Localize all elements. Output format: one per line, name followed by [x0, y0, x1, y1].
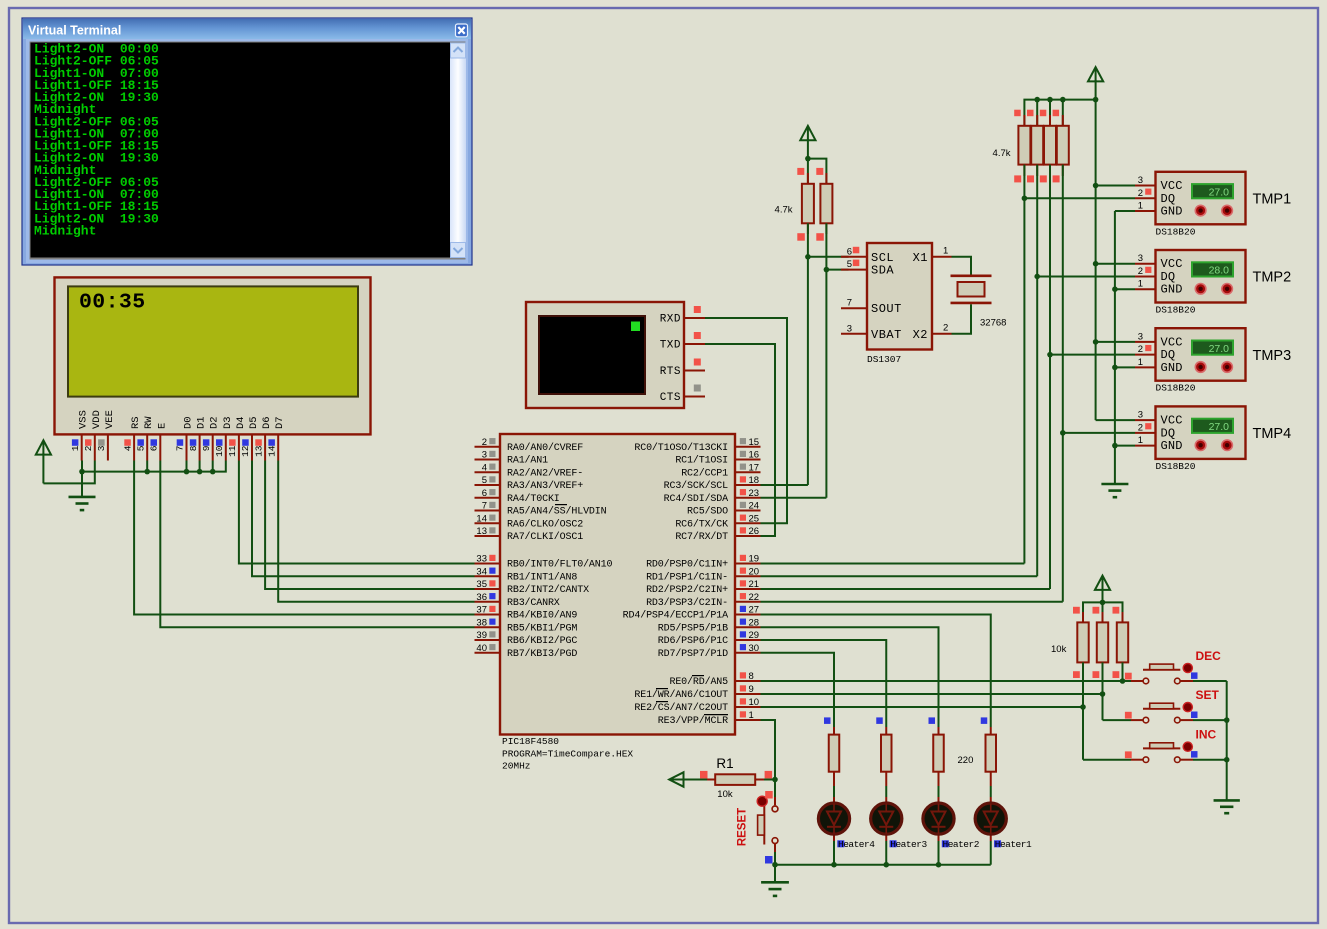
svg-text:Heater3: Heater3: [890, 839, 927, 850]
wire RE2 to INC: [761, 706, 1084, 708]
LCD pin 11 D4: [227, 416, 247, 460]
svg-text:37: 37: [476, 605, 487, 616]
svg-text:RD4/PSP4/ECCP1/P1A: RD4/PSP4/ECCP1/P1A: [623, 610, 728, 622]
PIC pin 19 RD0/PSP0/C1IN+: [646, 554, 760, 571]
svg-text:RD7/PSP7/P1D: RD7/PSP7/P1D: [658, 648, 728, 660]
resistor 4.7k DQ pullup 1: [1014, 110, 1030, 183]
svg-text:VEE: VEE: [104, 410, 116, 429]
svg-text:40: 40: [476, 643, 487, 654]
svg-text:RC5/SDO: RC5/SDO: [687, 506, 728, 518]
PIC pin 4 RA2/AN2/VREF-: [475, 462, 584, 479]
wire crystal to X2: [952, 304, 972, 334]
push button RESET: [757, 780, 778, 864]
svg-text:20: 20: [749, 566, 760, 577]
DS18B20 temperature sensor TMP4: [1135, 406, 1246, 459]
svg-text:9: 9: [201, 445, 212, 451]
LCD pin 5 RW: [135, 416, 155, 461]
svg-text:14: 14: [476, 513, 487, 524]
PIC pin 30 RD7/PSP7/P1D: [658, 643, 761, 660]
svg-text:14: 14: [266, 445, 277, 457]
svg-text:9: 9: [749, 684, 754, 695]
svg-text:RA6/CLKO/OSC2: RA6/CLKO/OSC2: [507, 518, 583, 530]
svg-text:27: 27: [749, 605, 760, 616]
LCD pin 14 D7: [266, 416, 286, 460]
wire LCD D7 to PIC RB3: [278, 461, 474, 602]
svg-text:4.7k: 4.7k: [993, 148, 1011, 159]
svg-text:SET: SET: [1196, 688, 1220, 702]
PIC pin 17 RC2/CCP1: [681, 462, 760, 479]
wire terminal RXD to PIC RC6: [705, 318, 787, 523]
svg-text:RC6/TX/CK: RC6/TX/CK: [675, 518, 728, 530]
wire terminal TXD to PIC RC7: [705, 344, 775, 536]
wire DQ2 net: [1036, 165, 1038, 577]
svg-text:VDD: VDD: [91, 410, 103, 429]
svg-text:Midnight: Midnight: [34, 223, 96, 238]
svg-text:RXD: RXD: [660, 314, 681, 326]
svg-text:RB5/KBI1/PGM: RB5/KBI1/PGM: [507, 622, 577, 634]
svg-text:TXD: TXD: [660, 340, 681, 352]
resistor 220 heater Heater1: [981, 717, 996, 771]
svg-text:2: 2: [1138, 188, 1143, 199]
terminal pin CTS: [660, 385, 705, 405]
wire PIC RD4 to heater1: [761, 615, 991, 728]
svg-text:26: 26: [749, 526, 760, 537]
svg-text:27.0: 27.0: [1209, 186, 1230, 198]
PIC pin 3 RA1/AN1: [475, 450, 549, 467]
wire VCC bus to 10k resistors: [1083, 602, 1123, 612]
wire buttons to ground: [1226, 681, 1228, 800]
PIC18F4580 microcontroller body: [500, 434, 735, 735]
LCD pin 9 D2: [201, 416, 221, 460]
svg-text:VSS: VSS: [78, 410, 90, 429]
svg-text:4: 4: [482, 462, 487, 473]
svg-text:RE1/WR/AN6/C1OUT: RE1/WR/AN6/C1OUT: [634, 689, 728, 701]
LCD pin 10 D3: [214, 416, 234, 460]
svg-text:RA5/AN4/SS/HLVDIN: RA5/AN4/SS/HLVDIN: [507, 506, 607, 518]
label Heater1: [994, 839, 1032, 850]
wire LCD ground bus: [81, 461, 83, 472]
wire DQ1 net: [1023, 165, 1025, 564]
svg-text:PROGRAM=TimeCompare.HEX: PROGRAM=TimeCompare.HEX: [502, 748, 633, 759]
wire SDA net: [825, 223, 827, 497]
PIC pin 37 RB4/KBI0/AN9: [475, 605, 578, 622]
svg-text:D0: D0: [183, 416, 195, 429]
svg-text:Virtual Terminal: Virtual Terminal: [28, 24, 121, 38]
svg-text:RE3/VPP/MCLR: RE3/VPP/MCLR: [658, 715, 728, 727]
svg-text:DS18B20: DS18B20: [1156, 383, 1196, 394]
PIC pin 29 RD6/PSP6/P1C: [658, 630, 761, 647]
svg-text:DEC: DEC: [1196, 649, 1222, 663]
svg-text:220: 220: [958, 755, 974, 766]
wire VCC rail to sensors: [1095, 100, 1097, 421]
svg-text:12: 12: [240, 445, 251, 457]
resistor 220 heater Heater3: [876, 717, 891, 771]
svg-text:E: E: [156, 423, 168, 429]
resistor 4.7k DQ pullup 2: [1027, 110, 1043, 183]
DS1307 pin 1 X1: [913, 245, 952, 264]
svg-text:28: 28: [749, 617, 760, 628]
svg-text:RC0/T1OSO/T13CKI: RC0/T1OSO/T13CKI: [634, 442, 728, 454]
svg-text:RD6/PSP6/P1C: RD6/PSP6/P1C: [658, 635, 728, 647]
PIC pin 15 RC0/T1OSO/T13CKI: [634, 437, 760, 454]
PIC pin 40 RB7/KBI3/PGD: [475, 643, 578, 660]
PIC pin 18 RC3/SCK/SCL: [664, 475, 761, 492]
push button INC: [1125, 742, 1227, 762]
LED Heater1: [975, 772, 1006, 841]
svg-text:5: 5: [482, 475, 487, 486]
push button SET: [1125, 703, 1227, 723]
LCD pin 4 RS: [122, 416, 142, 460]
svg-text:8: 8: [749, 671, 754, 682]
svg-text:RA7/CLKI/OSC1: RA7/CLKI/OSC1: [507, 531, 583, 543]
svg-text:RB3/CANRX: RB3/CANRX: [507, 597, 560, 609]
svg-text:RA3/AN3/VREF+: RA3/AN3/VREF+: [507, 480, 583, 492]
svg-text:D7: D7: [274, 416, 286, 429]
svg-text:4: 4: [122, 445, 133, 451]
svg-text:DS18B20: DS18B20: [1156, 305, 1196, 316]
wire GND rail of sensors: [1114, 211, 1116, 484]
svg-text:32768: 32768: [980, 318, 1006, 329]
svg-text:Heater1: Heater1: [995, 839, 1032, 850]
wire SCL net: [807, 223, 809, 485]
svg-text:D3: D3: [222, 416, 234, 429]
svg-text:3: 3: [1138, 410, 1143, 421]
svg-text:25: 25: [749, 513, 760, 524]
svg-text:2: 2: [83, 445, 94, 451]
LED Heater2: [923, 772, 954, 841]
svg-text:RB4/KBI0/AN9: RB4/KBI0/AN9: [507, 610, 577, 622]
svg-text:7: 7: [482, 501, 487, 512]
LCD screen: [68, 286, 358, 396]
PIC pin 35 RB2/INT2/CANTX: [475, 579, 590, 596]
svg-text:GND: GND: [1161, 283, 1183, 297]
svg-text:30: 30: [749, 643, 760, 654]
wire LCD RS to PIC RB4: [134, 461, 474, 615]
svg-text:8: 8: [188, 445, 199, 451]
PIC pin 14 RA6/CLKO/OSC2: [475, 513, 584, 530]
svg-text:28.0: 28.0: [1209, 265, 1230, 277]
svg-text:Heater2: Heater2: [943, 839, 980, 850]
terminal pin TXD: [660, 332, 705, 352]
ground symbol below RESET: [761, 881, 789, 884]
LCD pin 13 D6: [253, 416, 273, 460]
svg-text:13: 13: [253, 445, 264, 457]
virtual terminal instrument screen: [539, 316, 645, 394]
LCD pin 12 D5: [240, 416, 260, 460]
svg-text:RE2/CS/AN7/C2OUT: RE2/CS/AN7/C2OUT: [634, 702, 728, 714]
svg-text:3: 3: [847, 323, 852, 334]
svg-text:10: 10: [749, 697, 760, 708]
PIC overline marks: [555, 505, 728, 715]
svg-text:18: 18: [749, 475, 760, 486]
svg-text:21: 21: [749, 579, 760, 590]
svg-text:RB7/KBI3/PGD: RB7/KBI3/PGD: [507, 648, 577, 660]
svg-text:INC: INC: [1196, 728, 1217, 742]
svg-text:2: 2: [482, 437, 487, 448]
virtual terminal close button: [456, 24, 468, 37]
svg-text:10: 10: [214, 445, 225, 457]
svg-text:3: 3: [1138, 175, 1143, 186]
svg-text:1: 1: [1138, 435, 1143, 446]
PIC pin 34 RB1/INT1/AN8: [475, 566, 578, 583]
svg-text:RB6/KBI2/PGC: RB6/KBI2/PGC: [507, 635, 577, 647]
DS18B20 temperature sensor TMP3: [1135, 328, 1246, 381]
virtual terminal title bar: [23, 19, 471, 39]
svg-text:X2: X2: [913, 328, 928, 342]
wire VCC bus to pullups: [1024, 100, 1095, 126]
svg-text:CTS: CTS: [660, 392, 681, 404]
resistor 4.7k DQ pullup 4: [1053, 110, 1069, 183]
wire RESET to ground bus: [774, 852, 776, 865]
wire PIC RD6 to heater3: [761, 640, 887, 727]
PIC pin 16 RC1/T1OSI: [675, 450, 760, 467]
terminal cursor block: [631, 322, 640, 332]
svg-text:RD5/PSP5/P1B: RD5/PSP5/P1B: [658, 622, 728, 634]
resistor 4.7k DQ pullup 3: [1040, 110, 1056, 183]
svg-text:3: 3: [482, 450, 487, 461]
PIC pin 36 RB3/CANRX: [475, 592, 560, 609]
svg-text:D4: D4: [235, 416, 247, 429]
virtual terminal screen area: [26, 39, 468, 263]
svg-text:DS18B20: DS18B20: [1156, 461, 1196, 472]
wire DQ4 net: [1062, 165, 1064, 602]
LED Heater3: [871, 772, 902, 841]
PIC pin 1 RE3/VPP/MCLR: [658, 710, 761, 727]
PIC pin 28 RD5/PSP5/P1B: [658, 617, 761, 634]
svg-text:RB1/INT1/AN8: RB1/INT1/AN8: [507, 571, 577, 583]
ground symbol below sensors: [1101, 483, 1128, 486]
PIC pin 39 RB6/KBI2/PGC: [475, 630, 578, 647]
svg-text:38: 38: [476, 617, 487, 628]
resistor 4.7k SDA pullup: [816, 168, 832, 241]
svg-text:TMP1: TMP1: [1253, 192, 1292, 208]
svg-text:36: 36: [476, 592, 487, 603]
svg-text:27.0: 27.0: [1209, 343, 1230, 355]
PIC pin 25 RC6/TX/CK: [675, 513, 760, 530]
PIC pin 10 RE2/CS/AN7/C2OUT: [634, 697, 760, 714]
wire PIC RD5 to heater2: [761, 627, 939, 727]
svg-text:SDA: SDA: [871, 264, 894, 278]
push button DEC: [1125, 663, 1227, 683]
power VCC arrow at LCD: [36, 440, 51, 454]
svg-text:RD2/PSP2/C2IN+: RD2/PSP2/C2IN+: [646, 584, 728, 596]
svg-text:3: 3: [1138, 253, 1143, 264]
resistor R1 10k: [700, 771, 775, 785]
svg-text:GND: GND: [1161, 439, 1183, 453]
label Heater4: [837, 839, 875, 850]
svg-text:10k: 10k: [1051, 644, 1067, 655]
svg-text:R1: R1: [716, 756, 733, 771]
svg-text:3: 3: [96, 445, 107, 451]
DS1307 pin 3 VBAT: [841, 323, 902, 342]
svg-text:24: 24: [749, 501, 760, 512]
svg-text:RC7/RX/DT: RC7/RX/DT: [675, 531, 728, 543]
svg-text:GND: GND: [1161, 205, 1183, 219]
DS1307 pin 2 X2: [913, 322, 952, 342]
svg-text:35: 35: [476, 579, 487, 590]
LCD display module body: [55, 277, 371, 434]
DS18B20 temperature sensor TMP2: [1135, 250, 1246, 303]
svg-text:34: 34: [476, 566, 487, 577]
wire VDD to power: [43, 461, 94, 484]
PIC pin 5 RA3/AN3/VREF+: [475, 475, 584, 492]
svg-text:20MHz: 20MHz: [502, 760, 531, 771]
svg-text:RC1/T1OSI: RC1/T1OSI: [675, 455, 728, 467]
svg-text:SOUT: SOUT: [871, 302, 902, 316]
svg-text:6: 6: [149, 445, 160, 451]
svg-text:RTS: RTS: [660, 366, 681, 378]
terminal pin RTS: [660, 359, 705, 379]
svg-text:TMP2: TMP2: [1253, 270, 1292, 286]
terminal pin RXD: [660, 306, 705, 326]
svg-text:RB0/INT0/FLT0/AN10: RB0/INT0/FLT0/AN10: [507, 559, 612, 571]
PIC pin 27 RD4/PSP4/ECCP1/P1A: [623, 605, 761, 622]
resistor 10k button pullup 1: [1073, 607, 1089, 678]
svg-text:RE0/RD/AN5: RE0/RD/AN5: [669, 676, 728, 688]
svg-text:1: 1: [749, 710, 754, 721]
LCD pin 3 VEE: [96, 410, 116, 460]
svg-text:D2: D2: [209, 416, 221, 429]
resistor 220 heater Heater2: [929, 717, 944, 771]
PIC pin 8 RE0/RD/AN5: [669, 671, 760, 688]
svg-text:2: 2: [1138, 344, 1143, 355]
svg-text:1: 1: [70, 445, 81, 451]
wire X1 to crystal: [952, 257, 972, 275]
svg-text:33: 33: [476, 554, 487, 565]
svg-text:3: 3: [1138, 331, 1143, 342]
svg-text:Heater4: Heater4: [838, 839, 875, 850]
PIC pin 21 RD2/PSP2/C2IN+: [646, 579, 760, 596]
LCD pin 2 VDD: [83, 410, 103, 460]
power VCC arrow above 10k resistors: [1095, 576, 1110, 590]
DS1307 pin 6 SCL: [841, 246, 894, 264]
resistor 220 heater Heater4: [824, 717, 839, 771]
svg-text:00:35: 00:35: [79, 291, 146, 315]
virtual terminal popup window frame: [22, 18, 472, 265]
svg-text:RS: RS: [130, 416, 142, 429]
svg-text:29: 29: [749, 630, 760, 641]
svg-text:13: 13: [476, 526, 487, 537]
svg-text:TMP3: TMP3: [1253, 348, 1292, 364]
svg-text:5: 5: [847, 259, 852, 270]
svg-text:4.7k: 4.7k: [775, 205, 793, 216]
ground symbol below buttons: [1214, 799, 1240, 802]
LCD pin 7 D0: [175, 416, 195, 460]
svg-text:2: 2: [1138, 422, 1143, 433]
svg-text:PIC18F4580: PIC18F4580: [502, 736, 559, 747]
wire LCD D4 to PIC RB0: [239, 461, 475, 564]
PIC pin 26 RC7/RX/DT: [675, 526, 760, 543]
wire ground stem: [81, 472, 83, 497]
svg-text:22: 22: [749, 592, 760, 603]
PIC pin 33 RB0/INT0/FLT0/AN10: [475, 554, 613, 571]
svg-text:RC4/SDI/SDA: RC4/SDI/SDA: [664, 493, 729, 505]
wire heater ground bus: [775, 864, 991, 866]
svg-text:17: 17: [749, 462, 760, 473]
label Heater2: [942, 839, 980, 850]
svg-text:1: 1: [943, 245, 948, 256]
svg-text:6: 6: [482, 488, 487, 499]
DS1307 RTC body: [867, 243, 932, 350]
svg-text:27.0: 27.0: [1209, 421, 1230, 433]
PIC pin 13 RA7/CLKI/OSC1: [475, 526, 584, 543]
wire PIC MCLR to R1: [761, 720, 776, 780]
svg-text:RD0/PSP0/C1IN+: RD0/PSP0/C1IN+: [646, 559, 728, 571]
PIC pin 38 RB5/KBI1/PGM: [475, 617, 578, 634]
PIC pin 22 RD3/PSP3/C2IN-: [646, 592, 760, 609]
PIC pin 2 RA0/AN0/CVREF: [475, 437, 584, 454]
svg-text:16: 16: [749, 450, 760, 461]
svg-text:DS1307: DS1307: [867, 354, 901, 365]
wire RE0 to DEC: [761, 680, 1132, 682]
svg-text:19: 19: [749, 554, 760, 565]
svg-text:RC2/CCP1: RC2/CCP1: [681, 467, 728, 479]
wire LCD E to PIC RB5: [160, 461, 474, 628]
virtual terminal scrollbar: [450, 43, 466, 258]
svg-text:23: 23: [749, 488, 760, 499]
crystal X1 32768Hz: [951, 276, 992, 303]
wire LCD D6 to PIC RB2: [265, 461, 474, 590]
svg-text:RW: RW: [143, 416, 155, 429]
PIC pin 6 RA4/T0CKI: [475, 488, 560, 505]
LED Heater4: [818, 772, 849, 841]
svg-text:GND: GND: [1161, 361, 1183, 375]
svg-text:RA0/AN0/CVREF: RA0/AN0/CVREF: [507, 442, 583, 454]
power VCC arrow above 4.7k pull-ups: [800, 126, 815, 140]
LCD pin 1 VSS: [70, 410, 90, 460]
resistor 10k button pullup 2: [1093, 607, 1109, 678]
PIC pin 20 RD1/PSP1/C1IN-: [646, 566, 760, 583]
svg-text:VBAT: VBAT: [871, 328, 902, 342]
PIC pin 9 RE1/WR/AN6/C1OUT: [634, 684, 760, 701]
DS18B20 temperature sensor TMP1: [1135, 172, 1246, 225]
svg-text:RA2/AN2/VREF-: RA2/AN2/VREF-: [507, 467, 583, 479]
ground symbol below LCD: [69, 496, 96, 499]
svg-text:39: 39: [476, 630, 487, 641]
svg-text:X1: X1: [913, 251, 928, 265]
DS1307 pin 7 SOUT: [841, 298, 902, 317]
wire DQ3 net: [1049, 165, 1051, 589]
svg-text:7: 7: [175, 446, 186, 452]
svg-text:D1: D1: [196, 416, 208, 429]
DS1307 pin 5 SDA: [841, 259, 894, 278]
resistor 10k button pullup 3: [1113, 607, 1129, 678]
svg-text:RESET: RESET: [737, 808, 749, 846]
PIC part labels: [502, 736, 633, 771]
svg-text:10k: 10k: [717, 789, 733, 800]
svg-text:1: 1: [1138, 201, 1143, 212]
power VCC arrow above sensor pull-ups: [1088, 67, 1103, 81]
svg-text:D6: D6: [261, 416, 273, 429]
svg-text:5: 5: [135, 445, 146, 451]
virtual terminal text log: [34, 42, 159, 239]
wire PIC RD7 to heater4: [761, 653, 835, 727]
PIC pin 7 RA5/AN4/SS/HLVDIN: [475, 501, 607, 518]
label Heater3: [890, 839, 928, 850]
svg-text:1: 1: [1138, 357, 1143, 368]
svg-text:7: 7: [847, 298, 852, 309]
svg-text:1: 1: [1138, 279, 1143, 290]
svg-text:6: 6: [847, 246, 852, 257]
wire RE1 to SET: [761, 693, 1103, 695]
svg-text:RD3/PSP3/C2IN-: RD3/PSP3/C2IN-: [646, 597, 728, 609]
svg-text:11: 11: [227, 445, 238, 457]
svg-text:DS18B20: DS18B20: [1156, 226, 1196, 237]
wire LCD D5 to PIC RB1: [252, 461, 475, 577]
wire VCC to pullup resistors: [808, 159, 827, 184]
PIC pin 23 RC4/SDI/SDA: [664, 488, 761, 505]
svg-text:RB2/INT2/CANTX: RB2/INT2/CANTX: [507, 584, 589, 596]
